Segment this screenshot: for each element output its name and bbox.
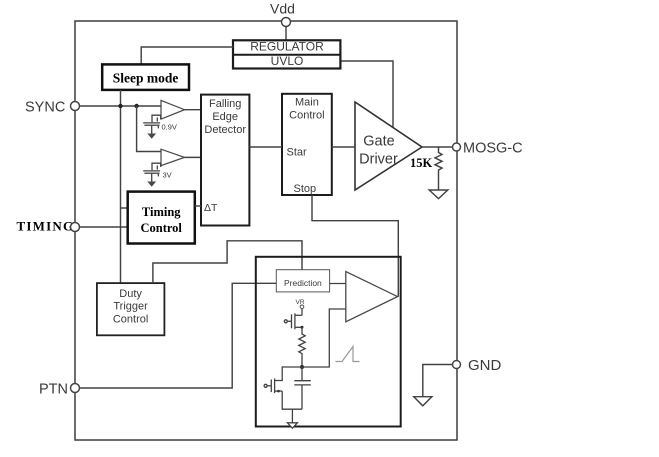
wire SYNC line bbox=[80, 105, 162, 107]
svg-text:SYNC: SYNC bbox=[25, 100, 65, 116]
svg-text:Star: Star bbox=[287, 147, 308, 159]
wire sync to comparator2 bbox=[137, 106, 161, 152]
wire comparator1 output bbox=[185, 109, 202, 111]
wire GND to ground symbol bbox=[423, 365, 453, 397]
reference 3V symbol bbox=[143, 163, 161, 181]
junction dot sync/comp2 bbox=[134, 104, 138, 108]
outer IC boundary box bbox=[75, 21, 457, 440]
wire Stop to prediction comparator output bbox=[312, 195, 398, 297]
wire sleep mode to regulator bbox=[141, 47, 233, 64]
svg-text:Control: Control bbox=[140, 221, 182, 235]
svg-text:Falling: Falling bbox=[209, 98, 241, 110]
wire FED to main control bbox=[249, 146, 282, 148]
block Timing Control bbox=[128, 192, 195, 244]
block Main Control bbox=[282, 94, 332, 195]
block ramp generator boundary bbox=[256, 257, 401, 427]
svg-text:Sleep mode: Sleep mode bbox=[113, 71, 179, 86]
junction dot PMOS drain bbox=[301, 326, 304, 329]
waveform sawtooth symbol bbox=[336, 347, 360, 362]
wire main control to gate driver bbox=[332, 146, 355, 148]
wire sleep mode down to duty trigger bbox=[120, 90, 122, 283]
svg-text:0.9V: 0.9V bbox=[162, 123, 177, 132]
wire UVLO to gate driver supply bbox=[342, 61, 394, 128]
wire ramp node to comparator input bbox=[302, 309, 346, 367]
capacitor C1 bbox=[294, 367, 311, 409]
wire timing control to FED bbox=[195, 205, 201, 207]
ground of 3V reference bbox=[147, 182, 156, 187]
terminal SYNC bbox=[71, 102, 80, 111]
svg-text:Detector: Detector bbox=[204, 124, 246, 136]
wire TIMING to timing control bbox=[80, 226, 128, 228]
ground of 15K resistor bbox=[429, 190, 448, 199]
ground symbol GND bbox=[414, 397, 432, 406]
block Prediction bbox=[276, 270, 329, 292]
op-amp Gate Driver bbox=[355, 102, 422, 190]
svg-text:Main: Main bbox=[295, 97, 319, 109]
svg-text:Vdd: Vdd bbox=[270, 1, 295, 17]
svg-text:Timing: Timing bbox=[142, 205, 181, 219]
resistor R1 15K bbox=[435, 147, 442, 190]
terminal Vdd bbox=[282, 18, 291, 27]
svg-text:UVLO: UVLO bbox=[271, 54, 304, 68]
svg-text:REGULATOR: REGULATOR bbox=[250, 40, 324, 54]
wire Vdd to regulator bbox=[285, 27, 287, 41]
wire rail to ground bbox=[291, 409, 293, 423]
junction dot ramp node bbox=[300, 365, 304, 369]
svg-text:VR: VR bbox=[296, 299, 305, 306]
svg-text:Driver: Driver bbox=[359, 152, 398, 168]
terminal MOSG-C bbox=[453, 143, 461, 151]
svg-text:3V: 3V bbox=[163, 171, 172, 180]
junction dot sleep/sync bbox=[118, 104, 122, 108]
terminal PTN bbox=[71, 384, 80, 393]
op-amp prediction comparator bbox=[346, 272, 398, 322]
terminal GND bbox=[453, 361, 461, 369]
comparator U1 (0.9V) bbox=[161, 100, 185, 119]
svg-text:Trigger: Trigger bbox=[113, 301, 148, 313]
junction dot NMOS source arrow bbox=[277, 390, 280, 393]
svg-text:ΔT: ΔT bbox=[204, 202, 218, 214]
svg-text:PTN: PTN bbox=[39, 382, 68, 398]
transistor Q1 PMOS bbox=[284, 313, 302, 329]
svg-text:Edge: Edge bbox=[212, 111, 238, 123]
wire ramp node to NMOS drain bbox=[275, 367, 302, 381]
terminal TIMING bbox=[71, 223, 80, 232]
block REGULATOR bbox=[233, 40, 340, 68]
svg-text:Duty: Duty bbox=[119, 288, 142, 300]
ground of ramp generator bbox=[287, 423, 297, 428]
svg-text:Control: Control bbox=[289, 110, 324, 122]
wire comparator2 output bbox=[185, 156, 202, 158]
svg-text:Prediction: Prediction bbox=[284, 278, 322, 288]
svg-text:Stop: Stop bbox=[294, 183, 317, 195]
wire prediction output bbox=[330, 283, 346, 285]
block Falling Edge Detector bbox=[201, 95, 249, 226]
wire stub to timing control bbox=[121, 207, 128, 209]
block Sleep mode bbox=[102, 64, 189, 90]
svg-text:Control: Control bbox=[113, 314, 148, 326]
wire NMOS source to rail bbox=[282, 391, 302, 409]
svg-text:15K: 15K bbox=[410, 156, 433, 170]
block Duty Trigger Control bbox=[97, 283, 164, 335]
wire duty trigger to prediction bbox=[153, 241, 302, 283]
reference 0.9V symbol bbox=[143, 115, 161, 133]
svg-text:MOSG-C: MOSG-C bbox=[463, 141, 523, 157]
wire PTN to prediction bbox=[80, 283, 277, 388]
resistor R2 bbox=[299, 327, 305, 356]
wire VR to PMOS source bbox=[301, 309, 303, 316]
svg-text:TIMING: TIMING bbox=[17, 219, 75, 234]
svg-text:GND: GND bbox=[468, 357, 502, 374]
transistor Q2 NMOS bbox=[264, 379, 282, 394]
wire resistor to node bbox=[301, 357, 303, 368]
terminal VR bbox=[300, 305, 304, 309]
svg-text:Gate: Gate bbox=[363, 134, 394, 150]
wire gate driver output to MOSG-C bbox=[422, 146, 453, 148]
comparator U2 (3V) bbox=[161, 149, 185, 165]
ground of 0.9V reference bbox=[147, 134, 156, 139]
